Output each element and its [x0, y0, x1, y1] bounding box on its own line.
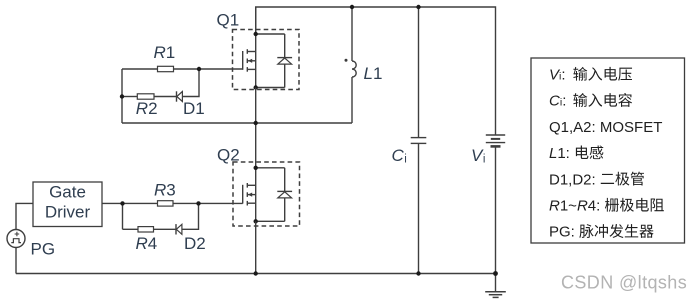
op-amp/box: Gate Driver: [33, 182, 102, 227]
svg-text:R1: R1: [154, 43, 176, 62]
pulse generator PG circle: [7, 230, 25, 248]
node: Vi bottom rail junction: [493, 271, 498, 276]
Q2 dashed package box: [233, 162, 300, 226]
Q2 body stub with arrow: [247, 194, 255, 196]
transistor Q1 (MOSFET): [233, 7, 300, 90]
Q1 source stub: [247, 68, 255, 70]
resistor R1: [158, 66, 174, 71]
wire: bottom rail from PG to ground: [16, 273, 496, 275]
svg-text:D1: D1: [183, 99, 205, 118]
PG pulse waveform: [11, 239, 21, 243]
Q2 gate bar: [242, 185, 244, 204]
diode D1 (cathode bar left, pointing left): [176, 91, 178, 101]
node: midpoint junction: [254, 121, 258, 125]
svg-text:Q2: Q2: [217, 145, 240, 164]
wire: R2 branch left segment: [122, 96, 137, 98]
wire: R1 to Q1 gate: [174, 68, 243, 70]
wire: D2 to right node vertical: [182, 203, 199, 229]
svg-text:R2: R2: [136, 99, 158, 118]
wire: R1 branch main line y=69: [122, 68, 158, 70]
wire: lower network left vertical: [122, 203, 124, 229]
diode D2 (cathode bar left, pointing left): [175, 224, 177, 234]
node: Q2 source junction: [254, 219, 258, 223]
node: Ci bottom rail junction: [416, 271, 420, 275]
ground: [495, 274, 497, 292]
wire: R4 to D2: [154, 228, 177, 230]
Q2 drain stub: [247, 184, 255, 186]
wire: R2 to D1: [154, 96, 177, 98]
Q2 source stub: [247, 202, 255, 204]
wire: top rail from Q1 drain to Vi+: [256, 7, 496, 135]
svg-text:R1~R4:: R1~R4:: [549, 198, 600, 215]
node: Q1 source junction: [254, 85, 258, 89]
svg-text:Vi:: Vi:: [549, 67, 566, 84]
node: lower network right junction: [196, 201, 200, 205]
transistor Q2 (MOSFET): [233, 162, 300, 226]
wire: R3 to right node and Q2 gate: [173, 202, 243, 204]
inductor L1 polarity dot: [345, 59, 348, 62]
wire: Q2 body diode top link: [256, 167, 285, 169]
diode: Q2 body diode: [284, 168, 286, 192]
wire: PG to bottom rail: [15, 248, 17, 274]
svg-text:Gate: Gate: [49, 183, 86, 202]
svg-text:CSDN @ltqshs: CSDN @ltqshs: [561, 273, 687, 293]
Q1 conductor vertical drain-to-source: [255, 34, 257, 88]
wire: D1 to right node vertical: [182, 69, 199, 97]
diode: Q1 body diode: [284, 34, 286, 58]
battery Vi symbol: [486, 134, 505, 136]
svg-text:Driver: Driver: [45, 203, 91, 222]
resistor R2: [137, 94, 154, 99]
Q1 gate bar: [242, 51, 244, 70]
node: upper network right junction: [197, 67, 201, 71]
svg-text:D2: D2: [184, 234, 206, 253]
svg-text:R3: R3: [154, 181, 176, 200]
wire: Vi bottom lead: [495, 146, 497, 273]
Q2 conductor vertical drain-to-source: [255, 168, 257, 222]
inductor L1 coil: [352, 61, 356, 77]
svg-text:Ci:: Ci:: [549, 93, 566, 110]
svg-text:Q1,A2: MOSFET: Q1,A2: MOSFET: [549, 119, 662, 136]
Q2 channel segments: [246, 183, 248, 188]
wire: L1 bottom lead to midpoint rail: [351, 77, 353, 123]
wire: Ci top lead: [418, 7, 420, 138]
wire: Q2 body diode bottom link: [256, 220, 285, 222]
svg-text:Q1: Q1: [217, 11, 240, 30]
wire: Q2 drain lead from midpoint: [255, 123, 257, 168]
wire: Ci bottom lead: [418, 143, 420, 273]
node: upper network left junction: [120, 94, 124, 98]
wire: Q1 body diode top link: [256, 33, 285, 35]
svg-text:Ci: Ci: [392, 146, 407, 166]
wire: PG to Gate Driver input: [16, 203, 33, 229]
PG plus sign: [15, 232, 20, 237]
node: Q1 drain junction: [254, 32, 258, 36]
wire: Q2 source lead to bottom rail: [255, 221, 257, 273]
Q1 channel segments: [246, 49, 248, 54]
legend box: [531, 58, 685, 243]
wire: Q1 drain lead: [255, 7, 257, 34]
capacitor C1 plates: [411, 137, 427, 139]
wire: midpoint rail: [122, 122, 352, 124]
wire: Q1 source lead to midpoint: [255, 88, 257, 124]
Q1 drain stub: [247, 51, 255, 53]
svg-text:L1: L1: [364, 64, 383, 83]
node: Ci top rail junction: [416, 5, 420, 9]
svg-text:D1,D2:: D1,D2:: [549, 171, 596, 188]
node: Q2 drain junction: [254, 166, 258, 170]
node: lower network left junction: [120, 201, 124, 205]
wire: upper network left vertical (node A down to midpoint rail): [121, 69, 123, 123]
svg-text:PG:: PG:: [549, 224, 575, 241]
wire: L1 top lead from top rail: [351, 7, 353, 61]
resistor R4: [138, 227, 154, 232]
Q1 dashed package box: [233, 30, 300, 90]
Q1 body stub with arrow: [247, 60, 255, 62]
node: L1 top rail junction: [350, 5, 354, 9]
resistor R3: [158, 201, 174, 206]
svg-text:Vi: Vi: [471, 146, 485, 166]
svg-text:R4: R4: [136, 234, 158, 253]
node: Q2 source bottom rail junction: [254, 271, 258, 275]
wire: R4 branch left segment: [123, 228, 139, 230]
svg-text:PG: PG: [31, 240, 56, 259]
svg-text:L1:: L1:: [549, 145, 570, 162]
wire: Q1 body diode bottom link: [256, 87, 285, 89]
wire: Gate Driver output to node: [102, 202, 158, 204]
